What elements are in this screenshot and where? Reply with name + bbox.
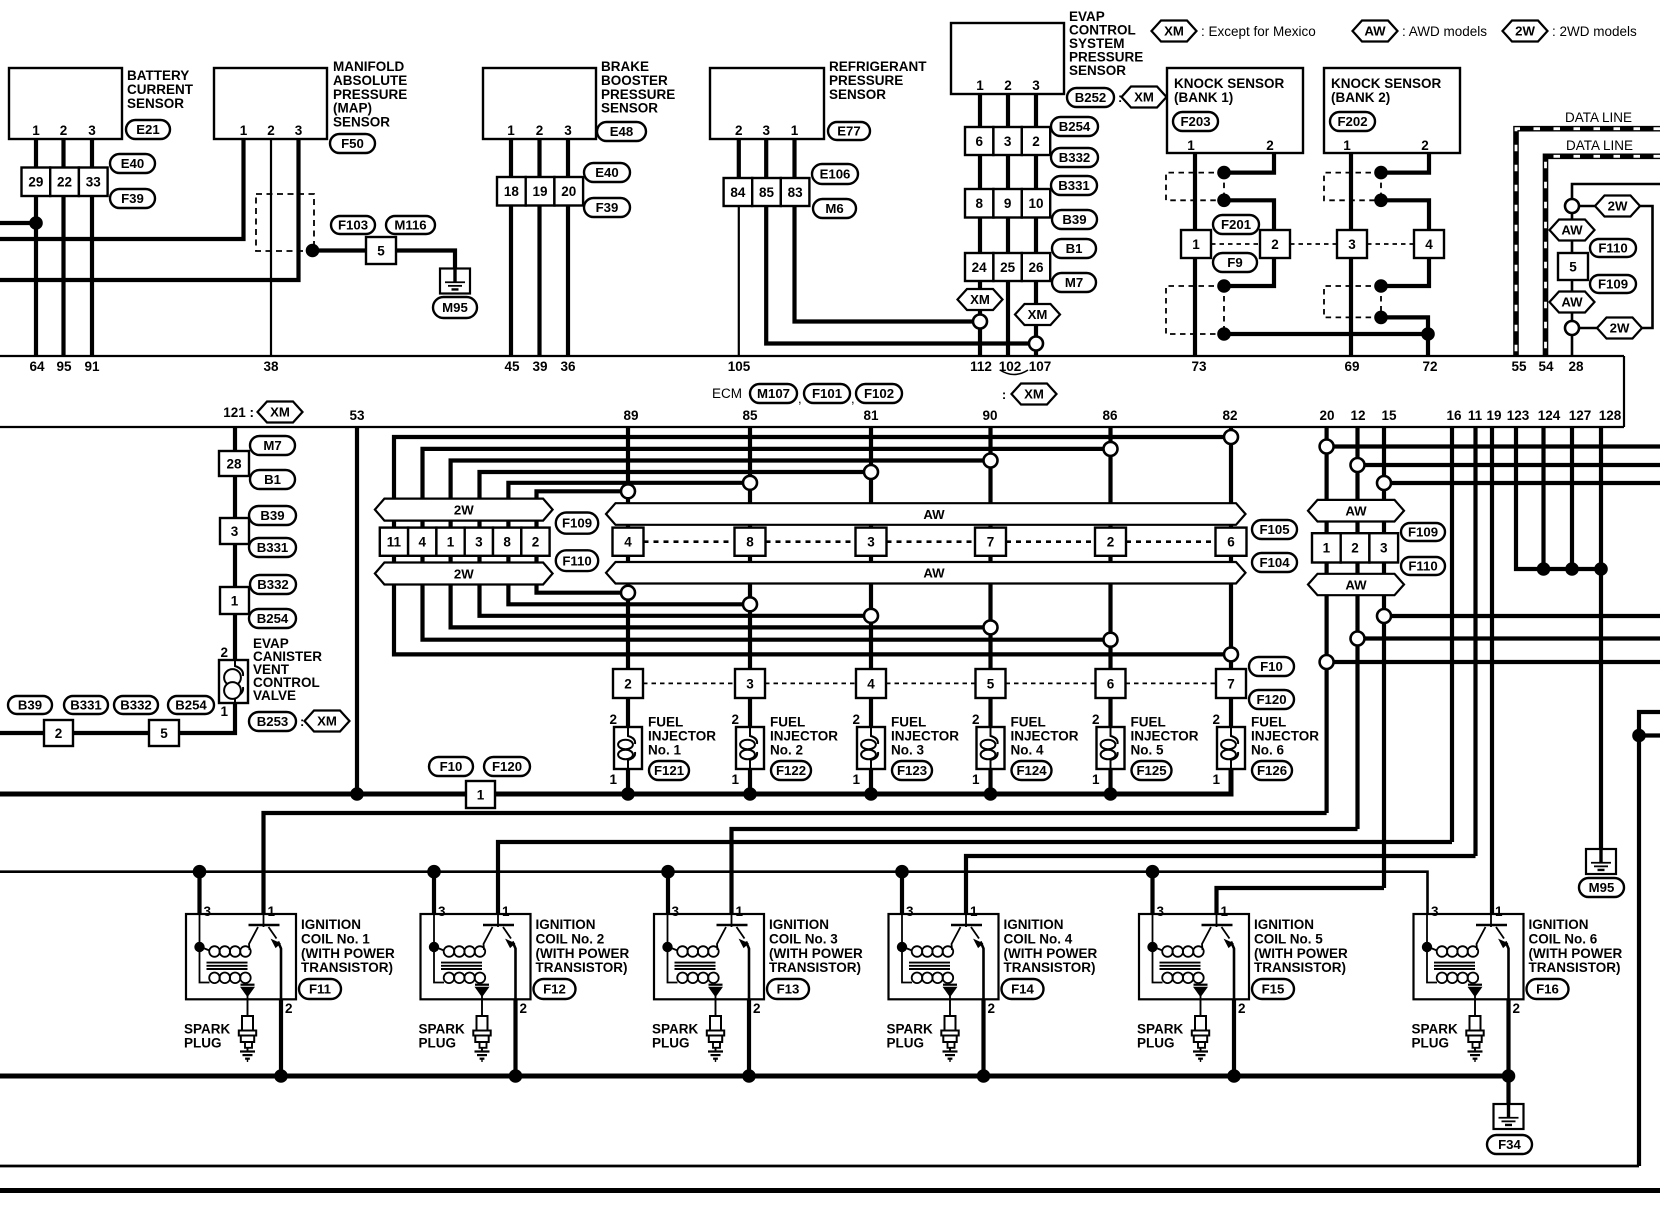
ECM pin 123 <box>1507 408 1530 423</box>
svg-text:COIL No. 1: COIL No. 1 <box>301 931 370 946</box>
connector F10/F120 pin 1 on supply bus <box>429 757 530 808</box>
feed wire ECM 16 to coil 2 <box>498 842 1452 923</box>
svg-text:SENSOR: SENSOR <box>601 101 658 116</box>
svg-text:3: 3 <box>295 123 303 138</box>
ignition coil No. 4 F14 with power transistor <box>889 904 1098 1016</box>
svg-text:KNOCK SENSOR: KNOCK SENSOR <box>1174 76 1285 91</box>
svg-text:XM: XM <box>1024 387 1044 402</box>
svg-text:5: 5 <box>1569 260 1577 275</box>
wire ECM 90 to fuel injector <box>988 427 992 727</box>
svg-text:: AWD models: : AWD models <box>1402 24 1487 39</box>
2W loop wire 2 <box>423 449 1111 640</box>
svg-text:1: 1 <box>976 78 984 93</box>
svg-text:2: 2 <box>735 123 743 138</box>
svg-text:F16: F16 <box>1536 982 1559 997</box>
svg-text:F14: F14 <box>1011 982 1034 997</box>
svg-text:4: 4 <box>1425 237 1433 252</box>
svg-text:E77: E77 <box>837 124 860 139</box>
svg-text:29: 29 <box>28 175 43 190</box>
AW tag upper pin 28 <box>1550 220 1595 241</box>
svg-text:10: 10 <box>1028 196 1043 211</box>
ECM pin 121 XM tag <box>223 402 302 423</box>
svg-text:(BANK 1): (BANK 1) <box>1174 90 1233 105</box>
svg-text:84: 84 <box>730 185 746 200</box>
svg-text:F105: F105 <box>1259 522 1289 537</box>
connector E106/M6 pins 84 85 83 <box>724 164 858 218</box>
svg-text:2: 2 <box>285 1001 293 1016</box>
svg-text:89: 89 <box>623 408 638 423</box>
junction dot ECM 53 on supply bus <box>350 787 364 801</box>
svg-text:VALVE: VALVE <box>253 688 296 703</box>
connector F103/M116 pin 5 <box>331 216 435 264</box>
spark plug 5 <box>1137 999 1209 1062</box>
ECM pin 54 <box>1538 359 1554 374</box>
svg-text:86: 86 <box>1102 408 1118 423</box>
svg-text:F50: F50 <box>341 136 364 151</box>
svg-text:B331: B331 <box>1058 178 1090 193</box>
connector M7/B1 pin 28 <box>219 436 295 489</box>
svg-text:XM: XM <box>270 405 290 420</box>
wire fuel injector No. 1 to supply bus <box>626 769 630 796</box>
svg-text:F9: F9 <box>1227 255 1242 270</box>
svg-text:3: 3 <box>1431 904 1439 919</box>
svg-text:M7: M7 <box>263 438 281 453</box>
svg-text:1: 1 <box>1192 237 1200 252</box>
ECM pin 28 <box>1568 359 1584 374</box>
bottom rail lower <box>0 1188 1660 1193</box>
svg-text:XM: XM <box>1134 90 1154 105</box>
connector B254/B332 pins 6 3 2 <box>965 117 1098 167</box>
ECM pin 102 <box>999 359 1022 374</box>
svg-text:3: 3 <box>906 904 914 919</box>
svg-text:B254: B254 <box>175 698 207 713</box>
svg-text:,: , <box>851 391 855 406</box>
feed wire ECM 15 to coil 5 <box>1217 888 1385 923</box>
svg-text:XM: XM <box>317 714 337 729</box>
svg-text:SPARK: SPARK <box>887 1022 934 1037</box>
wire knock1 pin 1 to ECM 73 <box>1193 153 1197 356</box>
svg-text:INJECTOR: INJECTOR <box>891 729 959 744</box>
ignition coil No. 3 F13 with power transistor <box>654 904 863 1016</box>
DATA LINE wire to ECM 54 <box>1546 138 1660 356</box>
2W branch wires to right edge lower <box>1333 616 1660 662</box>
svg-text:FUEL: FUEL <box>1251 715 1286 730</box>
svg-text:E21: E21 <box>136 122 159 137</box>
svg-text:2: 2 <box>1032 134 1040 149</box>
svg-text:F126: F126 <box>1257 763 1287 778</box>
svg-text:M95: M95 <box>442 300 468 315</box>
wire ECM 121 to EVAP canister vent control valve <box>233 427 237 660</box>
wire knock2 pin 1 to ECM 69 <box>1349 153 1353 356</box>
svg-text:3: 3 <box>204 904 212 919</box>
svg-text:2W: 2W <box>1608 199 1628 214</box>
svg-text:E48: E48 <box>610 124 633 139</box>
wire valve to left edge <box>0 703 235 733</box>
svg-text:1: 1 <box>736 904 744 919</box>
svg-text:(WITH POWER: (WITH POWER <box>536 946 630 961</box>
connector F109/F110 pins 11 4 1 3 8 2 <box>380 513 598 572</box>
ECM pin 112 <box>970 359 992 374</box>
2W band upper <box>375 499 553 521</box>
svg-text:82: 82 <box>1222 408 1237 423</box>
svg-text:2: 2 <box>609 712 617 727</box>
svg-text:ABSOLUTE: ABSOLUTE <box>333 73 407 88</box>
connector F110/F109 pin 5 <box>1558 239 1636 293</box>
svg-text:2: 2 <box>267 123 275 138</box>
svg-text:2: 2 <box>1513 1001 1521 1016</box>
svg-text:20: 20 <box>561 184 576 199</box>
junction dots power bus to coil pin 3 <box>193 865 1160 879</box>
svg-text:F10: F10 <box>440 759 463 774</box>
svg-text:TRANSISTOR): TRANSISTOR) <box>1004 960 1096 975</box>
svg-text:IGNITION: IGNITION <box>1529 917 1589 932</box>
svg-text:BOOSTER: BOOSTER <box>601 73 668 88</box>
ECM pin 124 <box>1538 408 1561 423</box>
svg-text:3: 3 <box>88 123 96 138</box>
svg-text:(WITH POWER: (WITH POWER <box>301 946 395 961</box>
svg-text:FUEL: FUEL <box>1131 715 1166 730</box>
svg-text:2W: 2W <box>454 502 474 517</box>
svg-text:F11: F11 <box>309 982 331 997</box>
wire knock1 shield lower <box>1224 258 1274 286</box>
wire brake pin 2 to ECM 39 <box>537 139 541 356</box>
svg-text:(WITH POWER: (WITH POWER <box>1004 946 1098 961</box>
svg-text:B332: B332 <box>1059 150 1091 165</box>
svg-text:3: 3 <box>1380 541 1388 556</box>
svg-text:F125: F125 <box>1136 763 1166 778</box>
wire coil 4 pin 2 to ground bus <box>981 999 985 1076</box>
svg-text:F15: F15 <box>1262 982 1285 997</box>
ECM pin 81 <box>863 408 879 423</box>
svg-text:F110: F110 <box>562 553 591 568</box>
svg-text:2: 2 <box>1351 541 1359 556</box>
svg-text:11: 11 <box>387 535 402 550</box>
svg-text:121 :: 121 : <box>223 405 254 420</box>
wire shield to connector pin 4 <box>1381 200 1429 230</box>
svg-text:112: 112 <box>970 359 992 374</box>
svg-text:F110: F110 <box>1408 559 1437 574</box>
ECM pin 107 <box>1029 359 1052 374</box>
svg-text:B254: B254 <box>257 611 289 626</box>
wire coil 2 pin 2 to ground bus <box>513 999 517 1076</box>
svg-text:3: 3 <box>672 904 680 919</box>
svg-text:1: 1 <box>791 123 799 138</box>
2W loop wire 3 <box>451 461 991 628</box>
svg-text:2: 2 <box>731 712 739 727</box>
svg-text:33: 33 <box>86 175 102 190</box>
shield dashed box around MAP wires <box>256 194 314 251</box>
svg-text:16: 16 <box>1446 408 1462 423</box>
svg-text:36: 36 <box>560 359 576 374</box>
ECM pin 20 <box>1319 408 1334 423</box>
ECM pin 86 <box>1102 408 1118 423</box>
svg-text:SPARK: SPARK <box>1137 1022 1184 1037</box>
ECM pin 90 <box>982 408 997 423</box>
svg-text:,: , <box>798 391 802 406</box>
wire ECM 81 to fuel injector <box>869 427 873 727</box>
ECM pin 128 <box>1599 408 1622 423</box>
2W loop wire 1 <box>394 437 1231 654</box>
2W bypass wire for pin 28 <box>1578 206 1653 328</box>
svg-text:F39: F39 <box>596 200 619 215</box>
svg-text:KNOCK SENSOR: KNOCK SENSOR <box>1331 76 1442 91</box>
svg-text:INJECTOR: INJECTOR <box>1011 729 1079 744</box>
svg-text:E40: E40 <box>595 165 618 180</box>
wire refrigerant pin 2 to ECM 105 <box>737 139 741 356</box>
svg-text:73: 73 <box>1191 359 1207 374</box>
svg-text:3: 3 <box>1004 134 1012 149</box>
svg-text:M7: M7 <box>1065 275 1083 290</box>
svg-text:69: 69 <box>1344 359 1359 374</box>
connector F109/F110 pins 1 2 3 <box>1312 523 1445 575</box>
svg-text:AW: AW <box>1561 295 1583 310</box>
svg-text:123: 123 <box>1507 408 1530 423</box>
svg-text:83: 83 <box>788 185 804 200</box>
svg-text:1: 1 <box>1221 904 1229 919</box>
wire right edge lower branch <box>1639 733 1660 737</box>
svg-text:B253: B253 <box>257 714 289 729</box>
svg-text:AW: AW <box>1364 24 1386 39</box>
fuel injector supply bus <box>0 769 1231 794</box>
svg-text:B331: B331 <box>70 698 102 713</box>
wire ECM 86 to fuel injector <box>1108 427 1112 727</box>
svg-text:1: 1 <box>447 535 455 550</box>
ECM pin 105 <box>728 359 751 374</box>
svg-text:3: 3 <box>1348 237 1356 252</box>
wire knock2 shield join <box>1381 317 1428 356</box>
svg-text:SPARK: SPARK <box>419 1022 466 1037</box>
svg-text:BATTERY: BATTERY <box>127 68 189 83</box>
svg-text:25: 25 <box>1000 260 1016 275</box>
svg-text:19: 19 <box>1486 408 1501 423</box>
wire EVAP pin 3 to ECM 107 <box>1034 94 1038 356</box>
ECM pin 95 <box>56 359 72 374</box>
svg-text:1: 1 <box>1187 138 1195 153</box>
wire EVAP pin 1 to ECM 112 <box>978 94 982 356</box>
svg-text:8: 8 <box>975 196 983 211</box>
svg-text:SENSOR: SENSOR <box>127 96 184 111</box>
svg-text:3: 3 <box>1157 904 1165 919</box>
svg-text:SPARK: SPARK <box>184 1022 231 1037</box>
wire knock1 pin 2 shield upper <box>1224 153 1274 173</box>
shield dashes knock1 upper <box>1166 173 1224 201</box>
connector E40/F39 pins 29 22 33 <box>22 154 156 208</box>
2W tag upper <box>1595 196 1640 217</box>
ECM pin 53 <box>349 408 365 423</box>
wire knock1 shield to ECM 72 node <box>1224 332 1428 336</box>
junction dots merged ground wires <box>1537 562 1608 576</box>
svg-text:IGNITION: IGNITION <box>1004 917 1064 932</box>
svg-text:19: 19 <box>533 184 548 199</box>
svg-text:1: 1 <box>32 123 40 138</box>
svg-text:1: 1 <box>477 788 485 803</box>
wire brake pin 1 to ECM 45 <box>509 139 513 356</box>
svg-text:85: 85 <box>742 408 758 423</box>
connector E40/F39 pins 18 19 20 <box>497 163 630 217</box>
wire fuel injector No. 6 to supply bus <box>1229 769 1233 796</box>
svg-text:F122: F122 <box>776 763 806 778</box>
svg-text:XM: XM <box>1028 307 1048 322</box>
svg-text:127: 127 <box>1569 408 1592 423</box>
svg-text:F102: F102 <box>864 386 894 401</box>
svg-text:No. 1: No. 1 <box>648 743 681 758</box>
svg-text:11: 11 <box>1468 408 1483 423</box>
connector F201/F9 pins 1 2 3 4 <box>1181 215 1444 272</box>
svg-text:53: 53 <box>349 408 365 423</box>
option node circles pins 20 12 15 <box>1320 440 1391 670</box>
svg-text:1: 1 <box>970 904 978 919</box>
ignition coil No. 2 F12 with power transistor <box>421 904 630 1016</box>
svg-text:F123: F123 <box>897 763 927 778</box>
svg-text:COIL No. 5: COIL No. 5 <box>1254 931 1323 946</box>
wire ECM 15 to ignition coil No. 5 feed <box>1382 427 1386 888</box>
bottom rail upper <box>0 1165 1639 1168</box>
svg-text:22: 22 <box>57 175 72 190</box>
svg-text:F103: F103 <box>338 218 368 233</box>
AW band upper pins 20 12 15 <box>1308 500 1404 522</box>
svg-text:2: 2 <box>1107 535 1115 550</box>
svg-text:COIL No. 6: COIL No. 6 <box>1529 931 1598 946</box>
svg-text:SENSOR: SENSOR <box>333 115 390 130</box>
svg-text:38: 38 <box>263 359 279 374</box>
svg-text:SPARK: SPARK <box>652 1022 699 1037</box>
wire ECM 16 to ignition coil No. 2 feed <box>1450 427 1454 842</box>
svg-text:1: 1 <box>852 772 860 787</box>
wire fuel injector No. 5 to supply bus <box>1108 769 1112 796</box>
svg-text:AW: AW <box>1345 504 1367 519</box>
ECM pin 15 <box>1381 408 1397 423</box>
brake booster pressure sensor box E48 <box>483 59 675 141</box>
wire fuel injector No. 4 to supply bus <box>988 769 992 796</box>
svg-text:2: 2 <box>624 677 632 692</box>
svg-text:MANIFOLD: MANIFOLD <box>333 59 404 74</box>
ignition coil No. 6 F16 with power transistor <box>1414 904 1623 1016</box>
svg-text:TRANSISTOR): TRANSISTOR) <box>536 960 628 975</box>
svg-text:1: 1 <box>231 594 239 609</box>
ECM pin 85 <box>742 408 758 423</box>
ECM pin 11 <box>1468 408 1483 423</box>
ECM box <box>0 356 1624 427</box>
wire ECM 53 to injector supply bus <box>355 427 359 794</box>
svg-text:PLUG: PLUG <box>1137 1035 1175 1050</box>
spark plug 1 <box>184 999 256 1062</box>
shield dashes knock2 upper <box>1324 173 1381 201</box>
svg-text:2: 2 <box>988 1001 996 1016</box>
svg-text:E40: E40 <box>121 156 144 171</box>
svg-text:1: 1 <box>1343 138 1351 153</box>
wire shield to connector pin 2 <box>1224 200 1274 230</box>
ignition coil No. 5 F15 with power transistor <box>1139 904 1348 1016</box>
svg-text:INJECTOR: INJECTOR <box>1251 729 1319 744</box>
2W loop wire 4 <box>480 472 872 616</box>
option node circles lower <box>621 586 1238 662</box>
svg-text:2: 2 <box>55 726 63 741</box>
svg-text:1: 1 <box>609 772 617 787</box>
junction dots knock1 lower shield <box>1217 279 1231 341</box>
EVAP control system pressure sensor box B252 <box>951 9 1167 108</box>
wire to left edge joining battery pin 1 <box>0 221 36 225</box>
connector B39/B331 pin 3 <box>220 506 296 557</box>
svg-text:: 2WD models: : 2WD models <box>1552 24 1637 39</box>
wire coil 1 pin 2 to ground bus <box>279 999 283 1076</box>
spark plug 3 <box>652 999 724 1062</box>
ECM pin 72 <box>1422 359 1437 374</box>
svg-text:SENSOR: SENSOR <box>829 87 886 102</box>
svg-text:3: 3 <box>746 677 754 692</box>
option node circle EVAP pin 1 <box>973 315 987 329</box>
svg-text:No. 4: No. 4 <box>1011 743 1044 758</box>
ground M95 top <box>433 268 477 319</box>
svg-text:B254: B254 <box>1059 119 1091 134</box>
svg-text:28: 28 <box>1568 359 1584 374</box>
svg-text:107: 107 <box>1029 359 1052 374</box>
wire ECM 82 to fuel injector <box>1229 427 1233 727</box>
svg-text:1: 1 <box>1212 772 1220 787</box>
svg-text:F12: F12 <box>543 982 566 997</box>
2W branch wires to right edge upper <box>1333 447 1660 484</box>
svg-text:2: 2 <box>220 645 228 660</box>
svg-text:FUEL: FUEL <box>770 715 805 730</box>
svg-text:XM: XM <box>1164 24 1184 39</box>
svg-text:ECM: ECM <box>712 386 742 401</box>
svg-text:FUEL: FUEL <box>648 715 683 730</box>
svg-text:PLUG: PLUG <box>1412 1035 1450 1050</box>
svg-text:2: 2 <box>1092 712 1100 727</box>
svg-text:AW: AW <box>923 507 945 522</box>
ECM pin 38 <box>263 359 279 374</box>
svg-text:M116: M116 <box>394 218 426 233</box>
svg-text:1: 1 <box>1092 772 1100 787</box>
ECM pin 64 <box>29 359 45 374</box>
svg-text:AW: AW <box>923 566 945 581</box>
svg-text:39: 39 <box>532 359 547 374</box>
svg-text:F101: F101 <box>812 386 842 401</box>
option node circles pin 28 <box>1565 199 1579 335</box>
shield drain wire to ground <box>313 251 456 271</box>
svg-text:81: 81 <box>863 408 879 423</box>
junction dot right edge branches <box>1632 729 1646 743</box>
svg-text:B332: B332 <box>120 698 152 713</box>
connector B1/M7 pins 24 25 26 <box>965 239 1096 292</box>
DATA LINE wire to ECM 55 <box>1516 110 1660 356</box>
svg-text:1: 1 <box>972 772 980 787</box>
svg-text:3: 3 <box>867 535 875 550</box>
fuel injector No. 5 F125 <box>1092 712 1199 787</box>
svg-text:1: 1 <box>1495 904 1503 919</box>
2W band lower <box>375 563 553 585</box>
svg-text:18: 18 <box>504 184 520 199</box>
svg-text:FUEL: FUEL <box>891 715 926 730</box>
svg-text:3: 3 <box>231 524 239 539</box>
option node circle EVAP pin 3 <box>1029 337 1043 351</box>
svg-text:6: 6 <box>1227 535 1235 550</box>
svg-text:5: 5 <box>377 244 385 259</box>
legend AW tag <box>1353 21 1488 42</box>
brace and XM tag for ECM pin 102 <box>1000 370 1057 405</box>
svg-text:F10: F10 <box>1260 659 1283 674</box>
stub wires power bus to coils pin 3 <box>200 872 1153 920</box>
ECM pin 19 <box>1486 408 1501 423</box>
knock sensor bank 1 box F203 <box>1167 68 1303 153</box>
svg-text:M107: M107 <box>757 386 790 401</box>
svg-text:F34: F34 <box>1498 1137 1521 1152</box>
svg-text:90: 90 <box>982 408 997 423</box>
svg-text:6: 6 <box>975 134 983 149</box>
svg-text:24: 24 <box>972 260 988 275</box>
ignition coil No. 1 F11 with power transistor <box>186 904 395 1016</box>
svg-text:8: 8 <box>746 535 754 550</box>
svg-text:2: 2 <box>536 123 544 138</box>
